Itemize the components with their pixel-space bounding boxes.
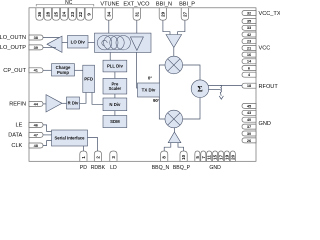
pin 20 — [230, 151, 235, 161]
svg-text:40: 40 — [247, 117, 251, 122]
sigma-delta modulator SDM — [103, 116, 127, 128]
pin 3 — [110, 151, 117, 161]
svg-text:GND: GND — [209, 165, 221, 171]
pin 44 — [29, 101, 43, 106]
wire mixer Q to summer — [183, 98, 200, 120]
svg-text:N Div: N Div — [109, 102, 121, 107]
wire BBI_P to buffer — [178, 20, 185, 34]
wire N Div to PFD — [92, 93, 103, 105]
wire pin44 to REFIN buffer — [43, 103, 46, 105]
pin 10 — [180, 151, 187, 161]
LO divider — [68, 36, 89, 49]
pin 5 — [195, 151, 200, 161]
pin 34 — [105, 8, 112, 20]
wire summer to RFOUT pin18 — [208, 84, 242, 86]
pin 37 — [242, 124, 256, 129]
wire serial interface to RDBK pin2 — [88, 138, 98, 152]
svg-text:LO Div: LO Div — [71, 39, 86, 44]
svg-text:NC: NC — [65, 0, 73, 6]
wire TX Div 0deg to mixer I — [159, 65, 165, 83]
pin 46 — [29, 122, 43, 127]
svg-text:15: 15 — [213, 154, 218, 160]
pin 28 — [44, 8, 51, 20]
VCO coil circles — [97, 36, 111, 50]
wire VCO buffer to TX Div — [136, 52, 139, 88]
pin 45 — [242, 103, 256, 108]
svg-text:SDM: SDM — [110, 119, 120, 124]
svg-text:10: 10 — [181, 154, 186, 160]
pin 33 — [242, 25, 256, 30]
svg-text:EXT_VCO: EXT_VCO — [123, 2, 150, 8]
wire VCO to LO Div — [88, 41, 95, 43]
svg-text:25: 25 — [54, 11, 59, 17]
wire R Div to PFD — [80, 93, 87, 104]
REFIN buffer — [46, 95, 62, 112]
svg-text:CP_OUT: CP_OUT — [3, 68, 26, 74]
svg-text:RFOUT: RFOUT — [259, 84, 279, 90]
N divider — [103, 98, 127, 111]
svg-text:Pump: Pump — [57, 70, 69, 75]
pin 15 — [213, 151, 218, 161]
svg-text:27: 27 — [182, 11, 187, 17]
wire serial interface to PD pin1 — [82, 146, 84, 151]
serial interface — [52, 130, 88, 146]
svg-text:BBI_P: BBI_P — [179, 2, 195, 8]
svg-text:17: 17 — [219, 154, 224, 160]
chip outline — [29, 8, 256, 162]
wire summer lower stub — [208, 89, 220, 91]
wire TX Div 90deg to mixer Q — [159, 97, 165, 119]
pin 29 — [159, 8, 166, 20]
svg-text:TX Div: TX Div — [142, 88, 156, 93]
wire VTUNE to VCO — [108, 20, 110, 33]
svg-text:37: 37 — [247, 124, 251, 129]
wire LO Div to buffer — [62, 41, 68, 43]
svg-text:BBQ_P: BBQ_P — [173, 165, 191, 171]
svg-text:REFIN: REFIN — [9, 102, 26, 108]
pin 25 — [52, 8, 59, 20]
pin 48 — [29, 143, 43, 148]
charge pump — [52, 64, 75, 76]
svg-text:LE: LE — [15, 123, 22, 129]
svg-text:22: 22 — [78, 11, 83, 17]
svg-text:GND: GND — [259, 121, 271, 127]
svg-text:LO_OUTP: LO_OUTP — [0, 45, 26, 51]
svg-text:VCC_TX: VCC_TX — [259, 11, 281, 17]
pin 24 — [61, 8, 68, 20]
pin 47 — [29, 132, 43, 137]
wire mixer I to summer — [183, 65, 200, 80]
svg-text:34: 34 — [106, 11, 111, 17]
wire pin46 LE to serial interface — [43, 125, 52, 131]
BBQ input buffer — [168, 132, 181, 143]
pin 2 — [94, 151, 101, 161]
wire BBI_N to buffer — [163, 20, 170, 34]
summer — [191, 80, 209, 98]
pin 41 — [29, 68, 43, 73]
NC bracket — [36, 5, 94, 7]
svg-text:30: 30 — [247, 131, 251, 136]
svg-text:RDBK: RDBK — [91, 165, 106, 171]
pin 21 — [242, 45, 256, 50]
pin 1 — [80, 151, 87, 161]
pin 6 — [242, 66, 256, 71]
pin 39 — [29, 45, 43, 50]
mixer I — [165, 56, 183, 74]
svg-text:20: 20 — [230, 154, 235, 160]
svg-text:31: 31 — [134, 11, 139, 17]
wire prescaler to N Div — [114, 94, 116, 98]
wire VCO to PLL Div — [109, 52, 111, 60]
svg-text:PD: PD — [80, 165, 87, 171]
svg-text:R Div: R Div — [68, 101, 79, 106]
pin 36 — [36, 8, 43, 20]
svg-text:VTUNE: VTUNE — [100, 2, 119, 8]
pin 22 — [77, 8, 84, 20]
svg-text:36: 36 — [37, 11, 42, 17]
svg-text:BBI_N: BBI_N — [156, 2, 172, 8]
LO output buffer — [47, 36, 62, 52]
TX divider — [138, 83, 160, 97]
svg-text:CLK: CLK — [11, 143, 22, 149]
ground arrow — [219, 96, 223, 99]
pin 16 — [242, 52, 256, 57]
pin 42 — [242, 32, 256, 37]
svg-text:Σ: Σ — [197, 85, 202, 94]
pin 43 — [242, 110, 256, 115]
pin 14 — [242, 59, 256, 64]
pin 9 — [85, 8, 92, 20]
pin 30 — [242, 131, 256, 136]
mixer Q — [165, 110, 183, 128]
pin 19 — [224, 151, 229, 161]
pin 31 — [133, 8, 140, 20]
pin 17 — [218, 151, 223, 161]
pin 11 — [207, 151, 212, 161]
svg-text:BBQ_N: BBQ_N — [152, 165, 170, 171]
wire N Div to SDM — [114, 111, 116, 116]
VCO — [95, 33, 152, 52]
svg-text:LO_OUTN: LO_OUTN — [0, 35, 26, 41]
wire pin48 CLK to serial interface — [43, 141, 52, 146]
svg-text:VCC: VCC — [259, 46, 271, 52]
wire pin38 to LO buffer — [43, 37, 59, 39]
wire BBQ buffer to mixer Q — [173, 128, 175, 132]
svg-text:19: 19 — [224, 154, 229, 160]
R divider — [67, 97, 80, 109]
wire BBQ_N to buffer — [164, 143, 171, 151]
pin 35 — [242, 19, 256, 24]
pin 26 — [242, 138, 256, 143]
svg-text:23: 23 — [70, 11, 75, 17]
wire EXT_VCO to VCO — [136, 20, 138, 33]
svg-text:LD: LD — [110, 165, 117, 171]
wire REFIN buffer to R Div — [62, 102, 67, 104]
svg-text:Scaler: Scaler — [109, 86, 122, 91]
pin 23 — [242, 39, 256, 44]
pin 7 — [201, 151, 206, 161]
pin 27 — [181, 8, 188, 20]
pin 23 — [69, 8, 76, 20]
svg-text:Serial Interface: Serial Interface — [54, 136, 85, 141]
balun coil — [220, 85, 221, 95]
PFD — [83, 65, 95, 92]
VCO buffer triangle — [130, 37, 143, 51]
svg-text:PLL Div: PLL Div — [107, 64, 124, 69]
pin 4 — [242, 72, 256, 77]
svg-text:PFD: PFD — [84, 76, 93, 81]
svg-text:24: 24 — [62, 11, 67, 17]
PLL divider — [103, 60, 127, 72]
svg-text:11: 11 — [207, 155, 212, 160]
pin 40 — [242, 117, 256, 122]
svg-text:0°: 0° — [148, 76, 152, 81]
wire charge pump to PFD — [75, 69, 83, 71]
pin 38 — [29, 35, 43, 40]
wire pin41 to charge pump — [43, 69, 52, 71]
pin 32 — [242, 11, 256, 16]
svg-text:28: 28 — [45, 11, 50, 17]
pin 8 — [161, 151, 168, 161]
prescaler — [103, 78, 127, 94]
svg-text:47: 47 — [34, 132, 38, 137]
svg-text:90°: 90° — [153, 98, 160, 103]
pin 18 — [242, 83, 256, 88]
BBI input buffer — [166, 35, 182, 48]
wire pin47 DATA to serial interface — [43, 134, 52, 136]
svg-text:29: 29 — [160, 11, 165, 17]
wire BBI buffer to mixer I — [173, 48, 175, 57]
wire BBQ_P to buffer — [178, 143, 184, 151]
wire PLL Div to prescaler — [114, 72, 116, 79]
wire pin39 to LO buffer — [43, 46, 56, 48]
svg-text:DATA: DATA — [8, 133, 22, 139]
